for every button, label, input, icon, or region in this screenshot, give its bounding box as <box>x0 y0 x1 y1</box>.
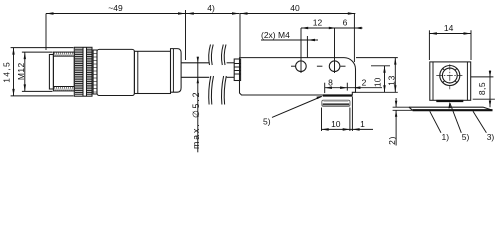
cable strain relief at housing <box>234 59 240 81</box>
svg-text:(2x) M4: (2x) M4 <box>261 30 290 40</box>
dimension 40 housing length <box>240 3 355 15</box>
cable break marks <box>209 45 227 105</box>
svg-text:10: 10 <box>372 77 382 87</box>
svg-text:13: 13 <box>386 75 396 86</box>
dimension 14 end view width <box>429 23 471 60</box>
label 1) with leader <box>430 111 449 142</box>
extension line optical axis right <box>471 76 494 78</box>
dimension 10 plate nose <box>322 97 374 132</box>
cable segment 2 <box>227 62 235 64</box>
svg-text:max. ∅5.2: max. ∅5.2 <box>191 91 201 150</box>
dimension 1 <box>352 119 365 131</box>
dimension 4) cable to housing <box>186 3 240 15</box>
label 5) side view with leader <box>263 96 323 127</box>
svg-text:6: 6 <box>343 18 348 28</box>
svg-text:10: 10 <box>331 119 341 129</box>
extension line housing right edge <box>353 14 355 63</box>
dimension max diameter 5.2 <box>191 57 201 153</box>
extension lines thread OD <box>22 51 53 53</box>
svg-text:1: 1 <box>360 119 365 129</box>
dimension 6 hole to edge <box>336 18 363 30</box>
dimension 10 vertical <box>372 66 385 93</box>
thick mounting surface segment <box>323 94 352 96</box>
connector knurled nut <box>74 47 92 96</box>
svg-text:4): 4) <box>207 3 215 13</box>
extension line body bottom right <box>473 98 495 100</box>
svg-text:8: 8 <box>328 77 333 87</box>
sensor housing side view outline <box>240 58 356 95</box>
dimension 2) plate thickness <box>387 98 413 146</box>
extension line top edge right <box>356 57 398 59</box>
label 3) with leader <box>473 111 494 142</box>
mounting hole 2 <box>329 61 340 72</box>
dimension M12 thread <box>16 52 26 91</box>
connector body front section <box>97 49 134 95</box>
svg-text:5): 5) <box>462 132 470 142</box>
extension line hole 1 center <box>300 28 302 73</box>
hole centerline dashes <box>291 65 346 67</box>
dimension 8.5 <box>477 70 491 107</box>
extension line cable end <box>185 10 187 60</box>
thick sensing face end view <box>436 100 463 102</box>
extension line hole center right <box>371 65 390 67</box>
dimension 12 hole spacing <box>301 18 336 30</box>
label (2x) M4 with leader <box>261 30 318 41</box>
dimension 14.5 connector OD <box>2 48 15 96</box>
extension lines knurl OD <box>11 47 74 49</box>
svg-text:8,5: 8,5 <box>477 82 487 95</box>
connector end cap <box>171 49 182 93</box>
svg-text:14: 14 <box>444 23 454 33</box>
dimension ~49 cable length <box>46 3 186 15</box>
svg-text:40: 40 <box>290 3 300 13</box>
dimension 2 step <box>353 77 366 89</box>
connector M12 thread body <box>53 52 74 91</box>
connector body rear section <box>134 51 170 93</box>
extension line housing left edge <box>239 14 241 58</box>
svg-text:M12: M12 <box>16 62 26 80</box>
svg-text:2): 2) <box>387 136 397 145</box>
mounting plate nose side view <box>322 100 350 106</box>
crosshair centerlines <box>436 64 462 89</box>
dimension 13 vertical <box>386 58 396 93</box>
extension line hole 2 center <box>334 28 336 73</box>
extension line left of connector <box>45 14 47 51</box>
dimension 8 <box>325 77 382 93</box>
svg-text:12: 12 <box>313 18 323 28</box>
svg-text:~49: ~49 <box>108 3 123 13</box>
extension line bottom step right <box>356 91 398 93</box>
svg-text:14,5: 14,5 <box>2 61 12 83</box>
sensor housing end view <box>430 62 471 100</box>
mounting plate end view <box>409 107 493 110</box>
svg-text:5): 5) <box>263 117 271 127</box>
extension line hole 1 edge <box>306 36 308 58</box>
mounting hole 1 <box>296 61 307 72</box>
svg-text:2: 2 <box>362 77 367 87</box>
connector spacer ring <box>93 50 97 94</box>
svg-text:1): 1) <box>442 132 450 142</box>
cable segment 1 <box>181 62 209 64</box>
label 5) end view with leader <box>448 102 469 142</box>
lens ring end view <box>440 66 460 86</box>
svg-text:3): 3) <box>487 132 495 142</box>
connector mating face ring <box>49 55 53 90</box>
